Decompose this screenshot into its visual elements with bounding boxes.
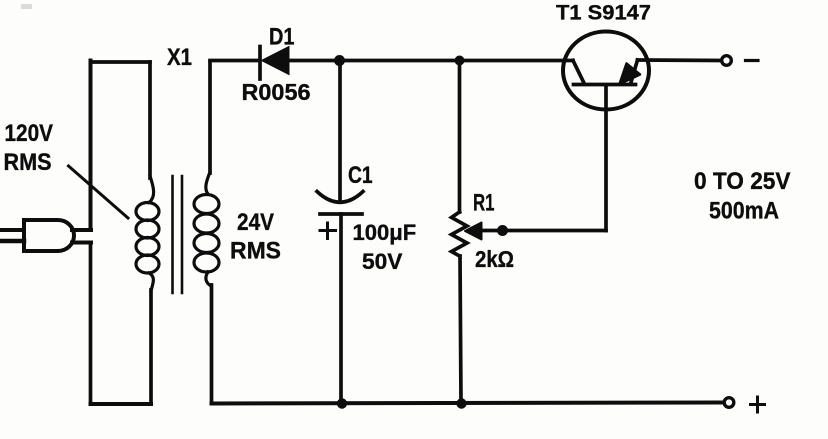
wire primary coil top lead [148, 62, 152, 178]
node A junction dot diode/C1 [334, 55, 345, 66]
node E junction dot R1 bottom [456, 398, 466, 408]
svg-text:D1: D1 [269, 24, 295, 51]
transformer X1 secondary winding [194, 172, 219, 286]
wire primary left vertical upper [89, 61, 93, 231]
svg-text:T1 S9147: T1 S9147 [556, 2, 651, 25]
svg-text:120V: 120V [5, 120, 54, 147]
plug prong bottom [0, 239, 24, 244]
wire secondary bottom lead [210, 285, 214, 404]
wire plug to primary top stub [72, 228, 91, 232]
node D junction dot on wiper wire [497, 225, 508, 236]
transistor T1 base bar [574, 83, 636, 87]
potentiometer R1 wiper arrow [465, 223, 482, 240]
minus sign [746, 59, 759, 62]
transistor T1 emitter diagonal [631, 60, 638, 84]
potentiometer R1 top lead [458, 61, 462, 213]
capacitor C1 curved plate [317, 192, 363, 203]
svg-text:RMS: RMS [230, 238, 281, 265]
svg-text:100μF: 100μF [353, 220, 417, 245]
svg-text:2kΩ: 2kΩ [475, 246, 514, 272]
svg-text:0 TO 25V: 0 TO 25V [694, 168, 791, 195]
wire primary bottom horizontal [91, 402, 152, 406]
transistor T1 emitter arrow [620, 64, 641, 85]
svg-text:C1: C1 [348, 162, 373, 189]
capacitor C1 top lead [338, 61, 342, 202]
node C junction dot C1 bottom [337, 398, 347, 408]
wire secondary top horizontal to diode [210, 59, 259, 63]
transistor T1 body circle [563, 32, 649, 110]
plug prong top [0, 228, 24, 232]
wire diode to transistor [288, 59, 573, 63]
svg-text:500mA: 500mA [709, 198, 779, 225]
AC plug P1 [24, 220, 74, 251]
capacitor C1 straight plate [320, 212, 362, 216]
transformer X1 primary winding [136, 176, 159, 291]
wire wiper to transistor base [483, 229, 606, 233]
wire emitter to output terminal [638, 58, 723, 62]
wire base lead vertical [604, 85, 608, 231]
svg-text:R0056: R0056 [242, 79, 311, 105]
node B junction dot R1 top [455, 56, 465, 66]
svg-text:R1: R1 [473, 190, 495, 217]
svg-text:RMS: RMS [4, 149, 52, 176]
capacitor C1 bottom lead [339, 214, 343, 404]
wire primary top horizontal [91, 60, 151, 64]
diode D1 triangle [262, 47, 290, 75]
diode D1 cathode bar [258, 47, 262, 80]
potentiometer R1 zigzag [452, 212, 468, 256]
svg-text:24V: 24V [237, 209, 274, 236]
capacitor C1 plus sign [320, 223, 336, 239]
svg-text:50V: 50V [362, 249, 403, 274]
transformer X1 core [171, 176, 174, 293]
wire secondary top lead [208, 62, 212, 173]
annotation line 120V RMS pointer [69, 166, 129, 218]
wire bottom rail [212, 403, 723, 404]
wire plug to primary bottom stub [72, 241, 91, 245]
potentiometer R1 bottom lead [460, 256, 461, 404]
transistor T1 collector diagonal [573, 61, 584, 84]
plus sign output [751, 397, 765, 412]
wire primary left vertical lower [89, 243, 93, 405]
wire primary coil bottom lead [149, 290, 153, 404]
terminal positive output [724, 398, 734, 408]
svg-text:X1: X1 [167, 44, 192, 71]
scan speck top left [21, 4, 32, 9]
terminal negative output [722, 56, 732, 66]
